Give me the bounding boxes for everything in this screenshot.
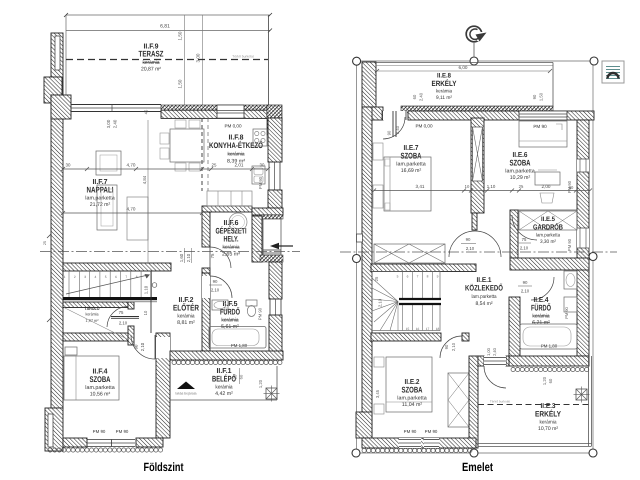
section dash-dot line ground floor: [40, 251, 300, 253]
kitchen open boundary dashed: [201, 118, 203, 191]
svg-text:4,70: 4,70: [127, 207, 136, 212]
wall south of bathroom: [170, 351, 283, 360]
svg-text:2,01: 2,01: [235, 163, 244, 168]
wall stub below mech door: [202, 268, 210, 273]
door hallway to room E2 90: [440, 336, 462, 358]
grid line right: [592, 65, 594, 449]
stair going line with arrow: [66, 275, 148, 294]
vertical dim 4,84: [147, 120, 149, 263]
balcony dashed line: [478, 404, 590, 406]
svg-text:3,00: 3,00: [106, 119, 111, 128]
svg-text:2,10: 2,10: [521, 289, 530, 294]
door hall to bathroom 90: [202, 276, 210, 298]
desk room E6: [535, 172, 560, 185]
svg-text:1,50: 1,50: [178, 31, 183, 40]
svg-text:SZOBA: SZOBA: [402, 385, 423, 394]
svg-text:1,20: 1,20: [542, 376, 547, 385]
svg-text:lam.parketta: lam.parketta: [85, 385, 114, 391]
svg-text:8: 8: [427, 275, 429, 279]
bed room E7: [384, 157, 431, 211]
balcony door gap II.E.7: [383, 111, 407, 120]
svg-text:2,10: 2,10: [520, 246, 529, 251]
door gap bedroom wall: [156, 337, 170, 358]
svg-text:15: 15: [406, 327, 410, 331]
svg-text:3,45: 3,45: [375, 389, 380, 398]
wall south of gardrobe / north of bathroom: [510, 258, 589, 270]
wall southwest corner: [45, 408, 63, 451]
svg-text:60: 60: [548, 378, 553, 383]
svg-text:PM 1,80: PM 1,80: [541, 344, 558, 349]
nightstands room E7: [373, 143, 383, 160]
svg-text:21,72 m²: 21,72 m²: [90, 202, 111, 208]
svg-text:9,11 m²: 9,11 m²: [436, 95, 452, 101]
wall southwest corner upper floor: [356, 412, 372, 438]
svg-text:5: 5: [397, 275, 399, 279]
svg-text:lam.parketta: lam.parketta: [472, 294, 497, 300]
wall west of gardrobe: [510, 210, 518, 258]
svg-text:30: 30: [66, 163, 71, 168]
svg-text:SZOBA: SZOBA: [401, 151, 422, 160]
horizontal dim chain y169: [63, 168, 268, 170]
svg-text:kerámia: kerámia: [221, 317, 238, 323]
svg-text:7: 7: [417, 275, 419, 279]
svg-text:10,56 m²: 10,56 m²: [90, 391, 111, 397]
svg-text:kerámia: kerámia: [215, 384, 232, 390]
drain symbol porch: [266, 388, 277, 399]
svg-text:1,10: 1,10: [144, 285, 149, 294]
wall between living room and stair: [63, 263, 171, 271]
wall south of bathroom E4: [509, 356, 589, 366]
door hall to bedroom 90: [131, 335, 155, 359]
entrance triangle lakas bejarata: [177, 382, 195, 390]
svg-text:2,10: 2,10: [119, 321, 128, 326]
svg-text:2: 2: [74, 275, 76, 279]
window in east wall gardrobe: [577, 228, 589, 248]
nightstands room E2: [374, 357, 384, 367]
wall west of mechanical room: [202, 212, 210, 247]
wall ground hatch lower-left of terrace: [44, 77, 62, 103]
svg-text:ELŐTÉR: ELŐTÉR: [173, 302, 199, 312]
staircase upper floor: [372, 272, 440, 331]
svg-text:2,40: 2,40: [395, 125, 400, 134]
svg-text:90: 90: [387, 130, 392, 135]
door hall to mechanical room 75: [210, 247, 231, 268]
stair rail bar: [63, 297, 157, 300]
svg-text:2,10: 2,10: [466, 246, 475, 251]
svg-text:lam.parketta: lam.parketta: [397, 395, 426, 401]
staircase ground floor: [69, 271, 151, 297]
svg-text:KÖZLEKEDŐ: KÖZLEKEDŐ: [465, 284, 503, 293]
water heater circle: [229, 213, 247, 231]
entrance niche: [263, 219, 281, 255]
glass sliding door terrace 3,00x2,40: [71, 104, 161, 106]
drain symbol balcony: [576, 389, 587, 400]
wardrobe room E2: [448, 373, 469, 427]
horizontal dim chain upper floor: [374, 190, 590, 192]
svg-text:90: 90: [466, 237, 471, 242]
wall east of kitchen lower: [268, 190, 282, 208]
window in east wall II.E.6: [577, 159, 589, 172]
svg-text:20,87 m²: 20,87 m²: [141, 67, 161, 73]
wall storage east lower: [128, 326, 134, 345]
svg-text:90: 90: [532, 94, 537, 99]
west wall dim ticks: [47, 234, 51, 238]
dim 6,00 upper balcony: [377, 70, 550, 72]
svg-text:90: 90: [213, 279, 218, 284]
gardrobe top boundary: [518, 209, 577, 211]
window PM 90 north wall II.E.6: [519, 111, 567, 120]
sofa living room: [97, 185, 117, 230]
svg-text:75: 75: [522, 237, 527, 242]
windows PM 90 bottom wall upper floor: [399, 438, 421, 448]
wall east exterior upper floor: [577, 120, 589, 356]
svg-text:lam.parketta: lam.parketta: [505, 168, 534, 174]
gardrobe wardrobe band: [519, 211, 577, 230]
dimension line top 6,81: [66, 14, 270, 16]
svg-text:2,65 m²: 2,65 m²: [222, 252, 240, 258]
stair step numbers upper: [397, 275, 440, 332]
svg-text:lam.parketta: lam.parketta: [536, 233, 560, 239]
svg-text:2,40: 2,40: [419, 92, 424, 101]
window PM 90 left in south wall: [87, 439, 135, 441]
grid line left: [356, 65, 358, 449]
svg-text:4,70: 4,70: [127, 163, 136, 168]
svg-text:TERASZ: TERASZ: [139, 50, 164, 59]
wall east of room E2: [469, 356, 478, 448]
svg-text:20: 20: [233, 374, 238, 379]
svg-text:10,29 m²: 10,29 m²: [510, 175, 531, 181]
svg-text:17: 17: [426, 327, 430, 331]
wall between kitchen and mechanical room: [202, 206, 252, 212]
svg-text:25: 25: [519, 184, 524, 189]
door storage 75: [107, 307, 128, 328]
svg-text:25: 25: [43, 241, 47, 245]
svg-text:2,40: 2,40: [492, 347, 497, 356]
svg-text:30: 30: [569, 185, 574, 190]
svg-text:45: 45: [144, 109, 149, 114]
wall stub below shaft: [472, 213, 477, 230]
wall north exterior: [161, 110, 267, 118]
svg-text:6: 6: [407, 275, 409, 279]
armchair living room: [96, 151, 121, 175]
svg-text:lakás bejárata: lakás bejárata: [175, 392, 196, 396]
bottom wall west segment: [63, 438, 87, 447]
hall left boundary line: [150, 271, 152, 333]
svg-text:SZOBA: SZOBA: [510, 158, 531, 167]
wall northwest corner living room: [51, 95, 71, 119]
kitchen counter row: [207, 191, 252, 206]
svg-text:9: 9: [437, 275, 439, 279]
svg-text:2,10: 2,10: [140, 342, 145, 351]
svg-text:Emelet: Emelet: [462, 460, 493, 474]
svg-text:Térkő burkolat: Térkő burkolat: [232, 55, 254, 59]
svg-text:PM 90: PM 90: [564, 306, 569, 318]
svg-text:4: 4: [95, 275, 97, 279]
svg-text:4,84: 4,84: [142, 175, 147, 184]
svg-text:18: 18: [436, 327, 440, 331]
double door to hallway 90: [449, 231, 475, 257]
svg-text:3: 3: [84, 275, 86, 279]
svg-text:8,54 m²: 8,54 m²: [476, 301, 493, 307]
svg-text:6: 6: [115, 275, 117, 279]
shaft void with cross: [473, 127, 483, 181]
svg-text:75: 75: [119, 310, 124, 315]
svg-text:kerámia: kerámia: [177, 313, 194, 319]
wall corner at balcony door: [370, 107, 383, 120]
kitchen sink: [252, 166, 265, 184]
wall south of stairs: [371, 333, 441, 341]
svg-text:2,10: 2,10: [451, 342, 456, 351]
svg-text:11,04 m²: 11,04 m²: [402, 402, 423, 408]
svg-text:ERKÉLY: ERKÉLY: [432, 79, 457, 88]
svg-text:75: 75: [210, 253, 215, 258]
svg-text:PM 0,00: PM 0,00: [415, 124, 433, 129]
washbasin: [212, 300, 228, 310]
insulation dots bottom wall upper floor: [362, 448, 366, 452]
svg-text:2,10: 2,10: [186, 253, 191, 262]
wall west of bathroom: [202, 273, 210, 351]
svg-text:PM 90: PM 90: [567, 238, 572, 251]
svg-text:Térkő burkolat: Térkő burkolat: [490, 400, 510, 404]
svg-text:1,10: 1,10: [487, 184, 496, 189]
svg-text:HELY.: HELY.: [224, 235, 239, 244]
svg-text:1,20: 1,20: [258, 379, 263, 388]
wall between bedroom and entry corridor: [156, 333, 170, 438]
wall stub east of balcony door: [506, 356, 509, 366]
grid circles: [353, 57, 361, 65]
svg-text:1,60: 1,60: [179, 253, 184, 262]
entrance arrow east: [279, 245, 293, 247]
svg-text:kerámia: kerámia: [436, 89, 452, 95]
storage slope line: [64, 308, 127, 340]
section dash-dot line upper floor: [340, 251, 617, 253]
svg-text:kerámia: kerámia: [143, 60, 160, 66]
balcony slab hatched band: [401, 106, 553, 113]
svg-text:30: 30: [260, 163, 265, 168]
wall east of kitchen upper: [268, 118, 282, 162]
logo box: [602, 61, 624, 83]
insulation dots south wall: [48, 448, 52, 452]
svg-text:ERKÉLY: ERKÉLY: [535, 410, 562, 419]
svg-text:PM 0,00: PM 0,00: [224, 124, 242, 129]
svg-text:2,40: 2,40: [113, 119, 118, 128]
balcony rails: [588, 356, 590, 446]
svg-text:FÜRDŐ: FÜRDŐ: [531, 302, 551, 312]
window PM 90 in east wall of kitchen: [268, 162, 270, 190]
horizontal dim chain y213: [63, 212, 202, 214]
svg-text:PM 90: PM 90: [404, 429, 417, 434]
svg-text:90: 90: [444, 344, 449, 349]
balcony door leaf and swing: [392, 111, 394, 137]
bed room E2: [386, 357, 432, 412]
bed bedroom F4: [64, 356, 119, 400]
svg-text:kerámia: kerámia: [540, 419, 557, 425]
niche in west wall upper floor: [357, 234, 363, 242]
svg-text:90: 90: [523, 280, 528, 285]
svg-text:8,81 m²: 8,81 m²: [177, 320, 195, 326]
svg-text:2,10: 2,10: [211, 288, 220, 293]
chair room E6: [540, 193, 554, 203]
svg-text:lam.parketta: lam.parketta: [396, 161, 425, 167]
wall between storage and bedroom: [63, 333, 128, 341]
svg-text:NAPPALI: NAPPALI: [87, 185, 114, 194]
grid line top: [357, 60, 594, 62]
svg-text:10,70 m²: 10,70 m²: [538, 426, 558, 432]
svg-text:6,81: 6,81: [160, 24, 170, 30]
svg-text:PM 90: PM 90: [116, 429, 129, 434]
svg-text:kerámia: kerámia: [228, 151, 245, 157]
terrace inner vertical dim line 1: [183, 15, 185, 105]
porch boundary: [170, 399, 277, 401]
svg-text:PM 90: PM 90: [258, 307, 263, 320]
svg-text:60: 60: [412, 94, 417, 99]
svg-text:25: 25: [212, 163, 217, 168]
wall west of bathroom E4: [509, 297, 520, 356]
svg-text:SZOBA: SZOBA: [90, 375, 111, 384]
svg-text:1,00: 1,00: [486, 347, 491, 356]
svg-text:6,00: 6,00: [459, 65, 468, 70]
wall below entrance niche: [260, 255, 283, 262]
svg-text:kerámia: kerámia: [86, 312, 100, 317]
svg-text:Földszint: Földszint: [144, 460, 184, 474]
svg-text:2,10: 2,10: [378, 298, 383, 307]
north arrow symbol: [466, 26, 482, 42]
svg-text:8: 8: [136, 275, 138, 279]
stair rail bar upper: [399, 298, 441, 305]
wall terrace west side: [51, 33, 63, 95]
bottom wall upper floor: [362, 438, 476, 448]
wall storage east upper: [128, 302, 134, 309]
wall west exterior: [51, 95, 63, 408]
wall stair storage north: [63, 302, 128, 308]
wall west exterior upper floor: [362, 107, 372, 438]
tv cabinet living room: [127, 197, 148, 240]
svg-text:PM 90: PM 90: [533, 124, 547, 129]
window PM 90 in east bathroom wall: [269, 299, 271, 315]
stove: [253, 129, 267, 146]
svg-text:16: 16: [416, 327, 420, 331]
section: upper floor plan Emelet: [340, 26, 624, 474]
svg-text:lam.parketta: lam.parketta: [85, 195, 114, 201]
wall north exterior upper floor: [408, 111, 594, 120]
wall west of upper balcony: [362, 62, 376, 107]
wall shaft between rooms: [471, 118, 484, 213]
door gardrobe 75: [512, 215, 537, 240]
svg-text:PM 90: PM 90: [93, 429, 106, 434]
stair step numbers: [64, 275, 148, 279]
svg-text:10: 10: [143, 310, 148, 315]
door hallway to bathroom E4: [531, 277, 554, 300]
dining table and chairs: [170, 129, 204, 162]
terrace right boundary line: [268, 15, 270, 105]
svg-text:1,97 m²: 1,97 m²: [86, 318, 100, 323]
svg-text:1: 1: [64, 275, 66, 279]
svg-text:GARDRÓB: GARDRÓB: [533, 223, 563, 232]
svg-text:PM 1,80: PM 1,80: [231, 343, 248, 348]
wall east of mechanical room: [252, 216, 262, 262]
upper balcony north edge: [376, 62, 553, 64]
svg-text:TÁROLÓ: TÁROLÓ: [85, 306, 101, 311]
terrace left boundary line: [65, 15, 67, 104]
wall north exterior insulation row: [161, 105, 267, 110]
svg-text:3,41: 3,41: [416, 184, 425, 189]
built-in wardrobe room E7: [374, 244, 445, 263]
bathtub E4: [520, 324, 577, 349]
toilet: [246, 300, 257, 306]
section: ground floor plan Foldszint: [40, 13, 300, 474]
grid line bottom: [360, 452, 589, 454]
stair winder lines: [372, 278, 398, 331]
wall east of bathroom upper: [269, 262, 282, 299]
bed room E6: [519, 121, 567, 147]
svg-text:4,42 m²: 4,42 m²: [215, 391, 233, 397]
svg-text:90: 90: [134, 344, 139, 349]
balcony door swing: [484, 366, 506, 388]
svg-text:6,21 m²: 6,21 m²: [532, 320, 550, 326]
bottom wall east segment: [136, 438, 163, 447]
svg-text:5: 5: [105, 275, 107, 279]
svg-text:25: 25: [374, 276, 379, 281]
wall stub east of E2 door: [462, 333, 469, 341]
svg-text:16,69 m²: 16,69 m²: [401, 168, 422, 174]
bathtub: [209, 327, 266, 349]
stair circle symbol: [152, 283, 157, 288]
svg-text:PM 90: PM 90: [425, 429, 438, 434]
terrace inner vertical dim line 2: [202, 15, 204, 105]
svg-text:1,50: 1,50: [539, 92, 544, 101]
wall entrance niche north: [252, 208, 283, 215]
svg-text:7: 7: [125, 275, 127, 279]
wall stub west of balcony door: [478, 356, 484, 366]
wall south of room E7: [371, 264, 476, 272]
insulation row entrance niche: [252, 215, 283, 219]
svg-text:kerámia: kerámia: [223, 245, 240, 251]
wall east of bathroom lower: [269, 315, 282, 353]
svg-text:3,30 m²: 3,30 m²: [540, 239, 556, 245]
washbasin E4: [564, 271, 577, 289]
washer E4: [564, 297, 577, 312]
window in north wall: [217, 105, 244, 118]
terrace dashed centre line: [66, 59, 268, 61]
svg-text:3,00: 3,00: [196, 53, 201, 62]
svg-text:kerámia: kerámia: [532, 313, 549, 319]
balcony door gap: [484, 356, 506, 366]
svg-text:1,50: 1,50: [178, 79, 183, 88]
svg-text:10: 10: [465, 184, 470, 189]
wall northeast corner: [267, 105, 282, 135]
